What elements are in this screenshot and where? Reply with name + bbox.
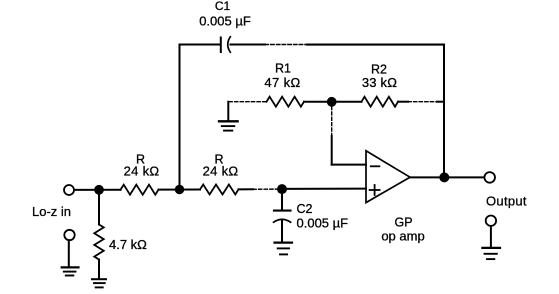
wire op-amp output to output terminal bbox=[410, 176, 484, 178]
op-amp minus pin label bbox=[371, 165, 380, 167]
svg-text:Output: Output bbox=[486, 194, 527, 209]
wire to C2 node (worn dashed near node) bbox=[239, 188, 278, 190]
wire C1 to right corner (with worn dashed stretch) bbox=[231, 44, 445, 46]
wire to C1 branch node bbox=[159, 189, 201, 191]
svg-text:33 kΩ: 33 kΩ bbox=[362, 75, 397, 90]
wire output ground stem bbox=[490, 226, 492, 247]
wire left vertical from C1 down to main line bbox=[179, 45, 181, 190]
resistor R 24k (second) bbox=[200, 185, 239, 195]
node input junction bbox=[94, 185, 104, 195]
svg-text:op amp: op amp bbox=[381, 229, 424, 244]
wire ground to R1 (worn/dashed) bbox=[229, 101, 267, 103]
svg-text:C1: C1 bbox=[215, 0, 231, 13]
node C1 branch junction bbox=[175, 185, 184, 194]
wire right vertical feedback from top corner to output node bbox=[443, 45, 445, 178]
svg-text:47 kΩ: 47 kΩ bbox=[264, 75, 300, 90]
svg-text:GP: GP bbox=[394, 216, 412, 230]
svg-text:C2: C2 bbox=[297, 202, 313, 216]
wire node down to 4.7k bbox=[98, 193, 100, 225]
wire top-left horizontal to C1 bbox=[180, 44, 220, 46]
svg-text:0.005 µF: 0.005 µF bbox=[297, 216, 349, 231]
wire R2 to feedback vertical (worn dashed) bbox=[398, 101, 444, 103]
ground (output reference) bbox=[482, 248, 500, 259]
terminal output circle bbox=[484, 172, 495, 183]
node output junction bbox=[439, 172, 449, 182]
op-amp U1 bbox=[366, 151, 410, 203]
wire input to first node bbox=[74, 189, 120, 191]
svg-text:24 kΩ: 24 kΩ bbox=[124, 164, 160, 179]
svg-text:Lo-z in: Lo-z in bbox=[32, 204, 71, 219]
wire 4.7k to ground bbox=[98, 260, 100, 279]
terminal input ground reference circle bbox=[64, 230, 74, 240]
node C2 junction bbox=[277, 184, 287, 194]
capacitor C2 bbox=[274, 194, 291, 242]
wire R1 to node bbox=[304, 101, 362, 103]
wire node down to op-amp inverting input bbox=[332, 107, 366, 165]
op-amp plus pin label bbox=[370, 185, 380, 195]
ground (left end of R1) bbox=[219, 102, 238, 131]
svg-text:R1: R1 bbox=[275, 62, 291, 76]
terminal input circle bbox=[64, 185, 74, 195]
ground (below 4.7k) bbox=[92, 279, 106, 287]
ground (below C2) bbox=[275, 243, 293, 255]
node (R1/R2 junction, to inverting input) bbox=[327, 97, 337, 107]
resistor R 24k (first) bbox=[121, 185, 159, 195]
resistor R1 47k bbox=[267, 97, 305, 107]
resistor 4.7k bbox=[94, 225, 103, 260]
svg-text:0.005 µF: 0.005 µF bbox=[199, 14, 251, 29]
terminal output ground reference circle bbox=[486, 216, 496, 226]
resistor R2 33k bbox=[362, 97, 399, 107]
svg-text:24 kΩ: 24 kΩ bbox=[203, 164, 239, 179]
ground (input reference) bbox=[62, 267, 79, 275]
wire node to op-amp non-inverting input bbox=[282, 188, 366, 190]
capacitor C1 bbox=[221, 37, 231, 52]
svg-text:4.7 kΩ: 4.7 kΩ bbox=[109, 237, 147, 252]
wire input ground stem bbox=[68, 240, 70, 266]
